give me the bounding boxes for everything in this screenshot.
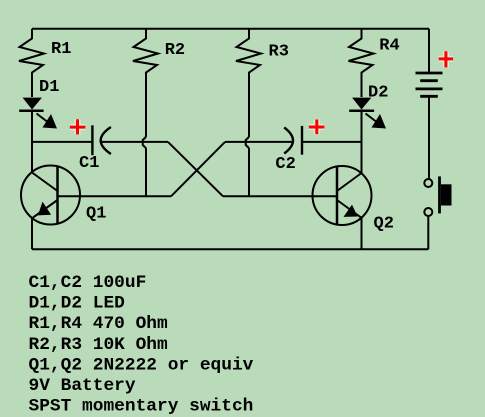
legend line 2 — [29, 294, 126, 314]
wire node B to C2 — [303, 141, 362, 143]
wire C1 to crossover — [102, 141, 168, 143]
polarity mark + for battery — [439, 51, 453, 67]
wire switch to bottom rail — [427, 216, 429, 249]
wire Q2 emitter to bottom rail — [361, 218, 363, 250]
svg-text:9V Battery: 9V Battery — [29, 376, 136, 396]
svg-text:R2,R3 10K Ohm: R2,R3 10K Ohm — [29, 335, 168, 355]
polarity mark + for C1 — [70, 119, 86, 134]
svg-text:R2: R2 — [165, 41, 185, 60]
label R1 — [51, 40, 71, 59]
wire crossover to C2 — [225, 141, 292, 143]
label Q1 — [86, 204, 106, 223]
polarity mark + for C2 — [309, 120, 325, 135]
svg-text:D1: D1 — [39, 78, 59, 97]
wire D1 cathode to Q1 collector — [31, 111, 33, 173]
wire battery to switch — [428, 98, 430, 180]
label R3 — [269, 43, 289, 62]
resistor R4 — [349, 29, 374, 97]
svg-text:R3: R3 — [269, 43, 289, 62]
label D2 — [368, 84, 388, 103]
transistor Q1 — [21, 166, 80, 225]
battery B1 — [416, 29, 443, 97]
svg-text:D1,D2 LED: D1,D2 LED — [29, 294, 126, 314]
wire D2 cathode to Q2 collector — [361, 111, 363, 173]
label C2 — [275, 155, 295, 174]
legend line 3 — [29, 314, 168, 334]
svg-text:D2: D2 — [368, 84, 388, 103]
legend line 7 — [29, 397, 254, 417]
LED D1 — [19, 98, 57, 129]
wire Q1 base — [58, 195, 172, 197]
legend line 5 — [29, 355, 254, 375]
wire Q2 base — [223, 195, 337, 197]
svg-text:C1,C2 100uF: C1,C2 100uF — [29, 273, 147, 293]
wire bottom rail — [32, 248, 428, 250]
svg-text:Q1,Q2 2N2222 or equiv: Q1,Q2 2N2222 or equiv — [29, 355, 254, 375]
svg-text:R1: R1 — [51, 40, 71, 59]
legend line 6 — [29, 376, 136, 396]
svg-text:SPST momentary switch: SPST momentary switch — [29, 397, 254, 417]
svg-text:C2: C2 — [275, 155, 295, 174]
wire node A to C1 — [32, 141, 92, 143]
wire top rail — [32, 28, 429, 30]
switch S1 pushbutton — [424, 176, 451, 216]
label D1 — [39, 78, 59, 97]
wire cross diagonal C2 to Q1 base — [171, 142, 225, 196]
resistor R1 — [19, 29, 44, 97]
legend line 4 — [29, 335, 168, 355]
transistor Q2 — [313, 166, 372, 225]
label Q2 — [374, 215, 394, 234]
label C1 — [79, 154, 99, 173]
svg-text:C1: C1 — [79, 154, 99, 173]
resistor R3 — [236, 29, 261, 197]
capacitor C2 — [284, 126, 302, 155]
svg-text:R1,R4 470 Ohm: R1,R4 470 Ohm — [29, 314, 168, 334]
wire cross diagonal C1 to Q2 base — [168, 142, 223, 196]
label R2 — [165, 41, 185, 60]
resistor R2 — [133, 29, 158, 197]
label R4 — [379, 36, 399, 55]
legend line 1 — [29, 273, 147, 293]
capacitor C1 — [92, 125, 111, 155]
svg-text:Q2: Q2 — [374, 215, 394, 234]
LED D2 — [349, 98, 386, 129]
svg-text:R4: R4 — [379, 36, 399, 55]
wire Q1 emitter to bottom rail — [31, 218, 33, 250]
svg-text:Q1: Q1 — [86, 204, 106, 223]
